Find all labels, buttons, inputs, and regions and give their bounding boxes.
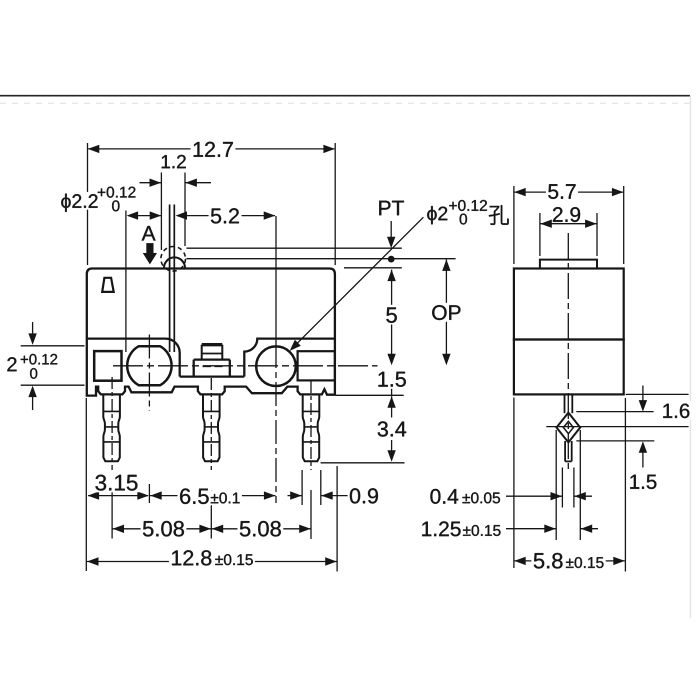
label 5 (386, 307, 396, 322)
dim 0.9 left tail (288, 495, 303, 497)
label 1.5 (right) (630, 475, 639, 489)
tolerance +0.12 (21, 356, 28, 363)
terminal 3 pin (303, 395, 320, 462)
dim line 5.8 (515, 560, 625, 562)
side pin left line upper (564, 394, 566, 413)
right view centerline (567, 233, 569, 470)
side pin left line lower (564, 441, 566, 461)
0.4 dim left leader (506, 495, 562, 497)
middle block base left side (193, 360, 195, 377)
label 1.6 (right) (663, 404, 672, 418)
PT arrow tail (390, 221, 392, 237)
terminal 2 pin (203, 395, 220, 462)
label 5.08 left (143, 521, 153, 536)
horizontal centerline through holes (113, 365, 378, 367)
page top rule (0, 95, 690, 97)
5.8 right ext (624, 398, 626, 572)
leader arrowhead at right hole (290, 340, 301, 351)
dim 3.4 top arrow (387, 396, 395, 408)
label 5.08 right (240, 521, 250, 536)
dimension arrowheads (88, 145, 100, 153)
label 3.15 (95, 475, 106, 491)
dim line 1.2 left tail (140, 182, 162, 184)
ext line right for 12.7 (334, 143, 336, 265)
pin3 centerline (310, 381, 312, 470)
diamond bottom reference line (576, 440, 654, 442)
operating position line (187, 258, 456, 260)
leader line from dia2 hole label (291, 217, 423, 349)
dim line 5.7 (515, 191, 624, 193)
middle block dash 2 (215, 365, 223, 367)
label 5.2 (211, 209, 221, 224)
right dia2 hole (256, 346, 296, 386)
dim line 12.7 (88, 148, 334, 150)
dim line 5.08 pair (113, 528, 311, 530)
plunger pin right line (173, 205, 175, 353)
middle block base top (194, 358, 230, 360)
middle block cap thick top (202, 343, 223, 346)
tolerance 0.15 (463, 527, 471, 536)
dim OP bottom arrow (442, 354, 450, 366)
middle block cap right side (221, 345, 223, 360)
pin1 centerline (111, 377, 113, 470)
ext line 1.2 right / plunger circle tangent (184, 173, 186, 247)
middle block dash 1 (203, 365, 212, 367)
dim 2 upper arrow tail (32, 322, 34, 334)
label 3.4 (378, 421, 388, 436)
dim line 2.9 (541, 223, 597, 225)
dim line 12.8 (87, 561, 337, 563)
tolerance +0.12 (98, 189, 106, 197)
label 2 (7, 357, 16, 371)
square mounting hole (94, 351, 121, 381)
tolerance 0.15 (566, 559, 574, 568)
2.9 right ext (596, 213, 598, 256)
label 12.7 (194, 142, 203, 157)
label 5.7 (548, 184, 558, 199)
side pin right line lower (571, 441, 573, 461)
dim line 1.2 right tail (185, 182, 211, 184)
base bottom ext right (626, 393, 689, 395)
pin3 left ext for 0.9 (301, 470, 303, 505)
dim line 3.15 (88, 495, 148, 497)
pin1 ext for 5.08 (111, 490, 113, 539)
internal base contour left (87, 339, 180, 377)
0.4 left ext (561, 468, 563, 508)
plunger dome arc (pressed position) (164, 257, 185, 267)
1.25 right ext (579, 430, 581, 540)
1.25 dim right tail (580, 528, 598, 530)
ext line for dia 2.2 (125, 211, 127, 353)
label 1.5 (378, 372, 387, 387)
pin3 right ext for 0.9 (320, 470, 322, 505)
tolerance 0.05 (462, 494, 470, 503)
diamond top reference line (576, 411, 653, 413)
pin2 centerline (210, 378, 212, 470)
plunger free position dashed circle (161, 246, 186, 271)
plunger pin left line (169, 205, 171, 353)
molded trapezoid mark (102, 278, 114, 292)
middle block cap inner line (202, 353, 223, 355)
pin3 ext for 5.08 (310, 490, 312, 539)
tolerance 0 (30, 368, 37, 379)
ext line left for 12.7 (87, 143, 89, 265)
dim 5 top arrow (387, 270, 395, 282)
label 5.8 (534, 553, 544, 568)
5.7 left ext (513, 186, 515, 264)
tolerance +0.12 (449, 202, 457, 210)
label A (142, 226, 156, 240)
stub under 1.5 (391, 389, 393, 395)
1.6 arrow tail (642, 386, 644, 401)
right rectangular recess (298, 351, 335, 380)
PT node dot (388, 256, 395, 263)
side view button (540, 260, 597, 269)
label 0.9 (350, 488, 360, 503)
dim 5 bottom arrow (387, 354, 395, 366)
ext line 1.2 left / plunger circle tangent (160, 173, 162, 251)
label 12.8 (172, 551, 181, 566)
label backgrounds (191, 139, 236, 158)
label 1.25 (422, 522, 431, 536)
5.8 left ext (513, 398, 515, 569)
dim line OP (445, 259, 447, 360)
body left edge extension (dims) (85, 398, 87, 571)
label 2.9 (553, 207, 563, 222)
dim line 6.5 (150, 495, 276, 497)
crimp diamond outer (557, 413, 581, 443)
label OP (432, 305, 446, 320)
label 6.5 (180, 488, 190, 504)
diamond mid reference line (546, 426, 688, 428)
right hole centerline upper extension (275, 216, 277, 344)
middle block cap left side (201, 345, 203, 360)
upper ext line for dim 2 (21, 345, 85, 347)
internal base floor (180, 375, 245, 377)
left hole vertical centerline (148, 335, 150, 412)
left 2mm hole (flattened circle) (127, 346, 171, 385)
1.25 left ext (555, 430, 557, 540)
tolerance 0 (112, 200, 119, 211)
label PT (379, 201, 390, 215)
pin2 ext for 5.08 (210, 490, 212, 539)
label 0.4 (430, 489, 440, 504)
crimp diamond inner (563, 421, 573, 433)
free position line (187, 247, 402, 249)
0.4 right ext (573, 468, 575, 508)
tolerance 0.15 (215, 556, 223, 565)
label hole (Chinese) (489, 205, 509, 225)
dim line dia2.2 (128, 215, 161, 217)
side pin bottom (565, 460, 572, 462)
side view base (514, 340, 624, 395)
faint right page border (690, 96, 692, 618)
tolerance 0.1 (211, 494, 219, 503)
internal base contour right (244, 339, 335, 377)
dim 2 lower arrow tail (32, 397, 34, 411)
side view upper housing (514, 269, 624, 340)
dim OP top arrow (442, 259, 450, 271)
label dia 2.2 (61, 194, 70, 212)
left hole centerline extension for dims (148, 484, 150, 503)
terminal end reference line (321, 462, 405, 464)
lower ext line for dim 2 (21, 384, 85, 386)
dim line 5.2 (177, 215, 275, 217)
0.4 dim right tail (574, 495, 592, 497)
1.5 arrow tail (642, 453, 644, 468)
label 1.2 (162, 155, 170, 168)
faint dashed rule (0, 102, 690, 104)
2.9 left ext (539, 213, 541, 256)
body top extension line (344, 267, 402, 269)
dim 3.4 bottom arrow (387, 450, 395, 462)
tolerance 0 (460, 214, 467, 225)
1.25 dim left leader (506, 528, 556, 530)
seating plane reference line (336, 394, 404, 396)
terminal 1 pin (103, 395, 120, 462)
label dia 2 (427, 206, 436, 224)
5.7 right ext (623, 186, 625, 264)
dim 0.9 right tail / leader (321, 495, 349, 497)
right hole centerline (275, 344, 277, 503)
middle block base right side (229, 360, 231, 377)
dim line 5 (391, 270, 393, 361)
side pin right line upper (571, 394, 573, 413)
right ext for 12.8 (336, 466, 338, 572)
switch body outline with bottom feet (87, 269, 335, 396)
thick view-direction arrow A (143, 243, 156, 263)
